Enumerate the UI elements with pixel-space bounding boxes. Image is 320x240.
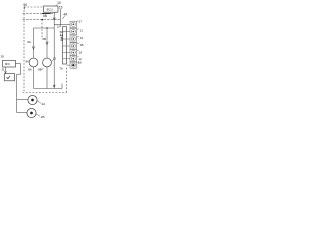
svg-text:16: 16 [80,36,84,40]
wheel W1 label lead [37,101,41,103]
pump 1 feed wire [33,28,35,58]
dashed enclosure bottom edge [23,92,67,94]
valve V5 label lead [77,49,79,52]
pump 2 outlet wire [46,67,48,88]
dashed enclosure left edge [23,7,25,93]
svg-text:31: 31 [1,67,5,71]
svg-text:17: 17 [79,19,83,23]
controller box U1 [44,6,59,12]
inner dashed partition line H2 [23,19,61,21]
manifold output stub y=31.5 [63,31,70,33]
valve V6 label lead [77,55,79,58]
master box L1 [3,61,16,68]
label 5C lead tick [59,34,61,36]
manifold output stub y=46.0 [63,45,70,47]
svg-text:7b: 7b [59,66,63,70]
label 10 lead line [55,5,57,6]
box L2 mark [7,76,10,79]
valve unit V3 [70,36,77,42]
manifold output stub y=39.0 [63,38,70,40]
valve unit V4 [70,43,77,49]
wire horizontal to valve row 1 [54,24,70,26]
arrowhead on U1 wire [53,18,55,21]
junction node pump 2 [46,27,47,28]
dashed enclosure top edge [24,6,44,8]
svg-text:6A: 6A [27,40,31,44]
supply header wire H3 [34,27,55,29]
branch wire to wheel W2 [17,112,27,114]
svg-text:12: 12 [57,25,61,29]
label 13 tick from P2 [52,60,54,62]
valve unit V1 [70,21,77,27]
valve V7 label lead [77,61,79,64]
reservoir box L2 [5,74,15,81]
wire from L1 to bottom branch [16,63,21,65]
return manifold wire [34,88,63,90]
pump 1 outlet wire [33,67,35,88]
junction tick to manifold top [60,25,62,28]
dashed enclosure right edge [66,66,68,93]
valve V3 label lead [77,35,79,38]
wire from U1 down (long vertical) [53,12,55,88]
svg-text:8B: 8B [38,68,42,72]
svg-text:50: 50 [23,3,27,7]
branch wire to wheel W1 [17,99,28,101]
svg-text:5B: 5B [43,14,47,18]
inner dashed partition line H1 [23,13,55,15]
stub to valve V7 [67,64,71,66]
manifold output stub y=58.8 [63,58,70,60]
svg-text:ECU: ECU [47,8,53,12]
svg-text:30: 30 [1,55,5,59]
svg-text:13: 13 [53,57,57,61]
svg-text:140: 140 [59,35,63,42]
arrow L1 to L2 [5,67,7,72]
svg-text:8A: 8A [26,59,29,63]
valve V2 label lead [77,28,79,31]
valve V4 label lead [77,42,79,45]
svg-text:4A: 4A [63,12,68,16]
valve unit V5 [70,49,77,55]
pump P2 [43,58,52,67]
svg-text:15: 15 [59,5,63,9]
valve unit V7 [70,62,77,68]
wire from label 15 down [60,9,62,25]
svg-text:18: 18 [79,50,83,54]
inner dashed partition vertical V2 [41,20,43,39]
valve unit V6 [70,56,77,62]
wheel cylinder W2 [27,108,36,117]
wheel W2 label lead [36,114,40,116]
pump P1 [29,58,38,67]
valve V1 label lead [77,21,79,22]
label 8B lead tick [42,68,44,71]
distribution manifold tall box [63,27,67,64]
svg-text:1B: 1B [78,61,82,65]
svg-text:8A: 8A [28,68,32,72]
pump 2 feed wire [46,28,48,58]
label 4A lead line [63,16,65,19]
svg-text:2A: 2A [42,102,46,106]
arrowhead pump 2 feed [46,42,48,45]
svg-text:M/C: M/C [5,62,10,66]
arrowhead pump 1 feed [32,46,34,49]
manifold stub up [61,84,63,89]
svg-text:6B: 6B [42,37,46,41]
junction node on H2 [42,19,44,21]
label 50 lead line [23,6,26,9]
valve unit V2 [70,28,77,34]
svg-text:2B: 2B [41,115,45,119]
manifold output stub y=52.5 [63,52,70,54]
arrowhead on long vertical near manifold [53,85,55,88]
dark segment on H1 [42,13,51,15]
svg-text:4B: 4B [80,43,84,47]
wheel cylinder W1 [28,95,37,104]
svg-text:11: 11 [80,28,83,32]
